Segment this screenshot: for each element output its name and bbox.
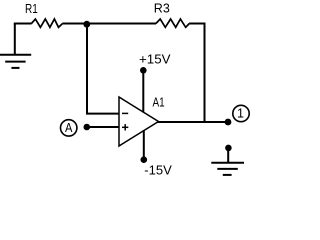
wire (R1 to R3, inverting node) [62, 23, 156, 25]
junction (output node) [225, 119, 232, 126]
svg-text:R3: R3 [154, 2, 170, 16]
op-amp inverting pin marker (-) [122, 112, 128, 114]
op-amp A1 [119, 97, 159, 146]
wire (non-inverting input) [87, 126, 119, 128]
power -15V [141, 130, 173, 177]
wire (inverting node down to op-amp inverting input) [87, 24, 119, 113]
wire (R3 right lead down to output node) [189, 24, 204, 123]
node 1 (output terminal circle) [233, 105, 249, 121]
wire (op-amp output) [158, 121, 229, 123]
junction (non-inverting input dot) [84, 124, 91, 131]
svg-text:A1: A1 [153, 96, 165, 110]
op-amp non-inverting pin marker (+) [122, 124, 128, 130]
svg-text:+15V: +15V [139, 51, 171, 66]
svg-text:-15V: -15V [144, 163, 172, 178]
wire (R1 left lead) [15, 24, 32, 26]
svg-text:R1: R1 [25, 2, 38, 16]
svg-text:1: 1 [237, 107, 244, 121]
power +15V [139, 51, 171, 112]
svg-text:A: A [65, 121, 73, 135]
junction (inverting node) [83, 21, 90, 28]
ground (left, at R1 input) [0, 24, 31, 68]
ground (right, at output) [211, 145, 244, 175]
resistor R3 [156, 19, 189, 27]
resistor R1 [31, 19, 62, 27]
node A (input terminal circle) [60, 120, 76, 136]
